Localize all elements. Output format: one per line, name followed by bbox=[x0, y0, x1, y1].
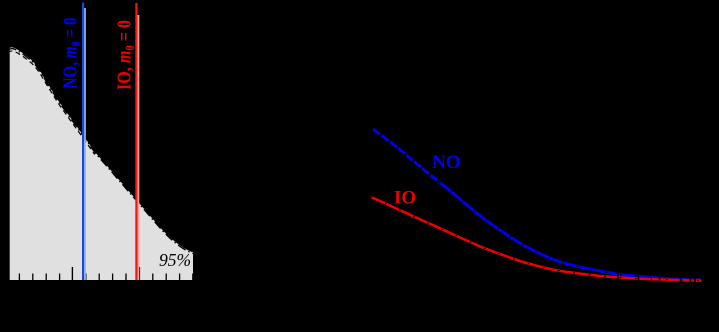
gray posterior region (left panel) bbox=[8, 46, 194, 280]
right panel tick marks crossing curves bbox=[618, 272, 695, 284]
minor x ticks (left panel) bbox=[19, 274, 192, 281]
sparse black nick overlay on IO curve bbox=[371, 197, 701, 281]
IO vertical line (red) bbox=[135, 3, 137, 280]
sparse black nick overlay on NO curve bbox=[439, 182, 701, 280]
svg-text:NO, m0 = 0: NO, m0 = 0 bbox=[61, 18, 84, 89]
NO vertical line (light blue companion) bbox=[84, 8, 86, 280]
svg-text:IO, m0 = 0: IO, m0 = 0 bbox=[115, 20, 138, 90]
dashed profile curve near peak bbox=[8, 51, 95, 155]
solid black boundary curve on gray bbox=[8, 46, 194, 251]
major x ticks (left panel) bbox=[72, 267, 139, 280]
black dash overlay on NO curve start bbox=[372, 128, 440, 182]
dash-dot profile curve (inside gray, offset below boundary) bbox=[8, 49, 194, 254]
svg-text:95%: 95% bbox=[159, 250, 191, 270]
NO vertical line (dark blue) bbox=[82, 3, 84, 281]
IO curve (right panel, red) bbox=[371, 197, 701, 281]
IO vertical line (pink companion) bbox=[137, 15, 139, 280]
svg-text:IO: IO bbox=[394, 188, 416, 209]
y axis line (left panel) bbox=[7, 46, 9, 280]
svg-text:NO: NO bbox=[432, 152, 461, 173]
NO curve (right panel, blue) bbox=[372, 128, 702, 280]
